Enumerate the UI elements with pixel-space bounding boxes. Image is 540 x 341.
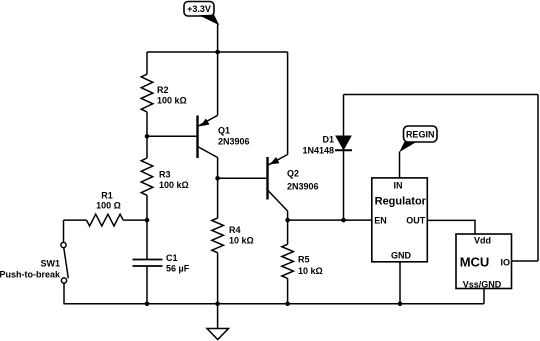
- power flag +3.3V: [184, 2, 219, 26]
- svg-text:GND: GND: [391, 251, 412, 261]
- IC MCU box: [456, 234, 512, 289]
- wire node to R5: [287, 220, 289, 244]
- svg-text:R5: R5: [298, 255, 310, 265]
- svg-text:10 kΩ: 10 kΩ: [229, 236, 254, 246]
- wire +3.3V rail: [147, 51, 288, 53]
- svg-text:100 kΩ: 100 kΩ: [157, 96, 187, 106]
- junction +3.3V node: [215, 50, 220, 55]
- junction R5 ground node: [285, 302, 290, 307]
- wire EN net: [288, 219, 372, 221]
- junction regulator GND node: [398, 302, 403, 307]
- wire OUT net to MCU Vdd: [427, 220, 475, 234]
- svg-text:IO: IO: [500, 258, 510, 268]
- svg-text:56 µF: 56 µF: [166, 264, 190, 274]
- svg-text:Q2: Q2: [287, 169, 299, 179]
- wire R2 to Q1 base node: [146, 112, 148, 136]
- junction R4 ground node: [215, 302, 220, 307]
- junction R1/R3/C1 node: [145, 218, 150, 223]
- wire Q1 collector down: [217, 158, 219, 179]
- IC regulator box: [372, 178, 428, 262]
- svg-text:2N3906: 2N3906: [218, 137, 250, 147]
- svg-text:100 kΩ: 100 kΩ: [159, 180, 189, 190]
- svg-text:MCU: MCU: [460, 255, 490, 270]
- svg-text:R3: R3: [159, 170, 171, 180]
- svg-text:R2: R2: [157, 85, 169, 95]
- wire Q1 base: [147, 135, 197, 137]
- svg-text:R1: R1: [101, 191, 113, 201]
- svg-text:IN: IN: [394, 181, 403, 191]
- wire R1 left lead: [64, 219, 87, 221]
- svg-text:Push-to-break: Push-to-break: [0, 270, 61, 280]
- svg-text:REGIN: REGIN: [406, 130, 435, 140]
- wire Q1 emitter to rail: [217, 52, 219, 115]
- wire IO horizontal: [512, 260, 539, 262]
- wire rail to R2: [146, 52, 148, 74]
- svg-text:SW1: SW1: [40, 259, 60, 269]
- transistor Q2: [268, 155, 288, 212]
- wire REGIN to IN: [399, 152, 401, 179]
- diode D1: [335, 136, 352, 150]
- power flag REGIN: [399, 126, 437, 152]
- svg-text:Vss/GND: Vss/GND: [463, 280, 502, 290]
- wire regulator GND down: [399, 262, 401, 304]
- svg-text:D1: D1: [322, 135, 334, 145]
- svg-text:EN: EN: [374, 215, 387, 225]
- svg-text:Q1: Q1: [218, 126, 230, 136]
- wire R1 right lead: [123, 219, 147, 221]
- transistor Q1: [198, 115, 218, 158]
- junction Q1 base node: [145, 134, 150, 139]
- resistor R2: [141, 74, 153, 112]
- svg-text:10 kΩ: 10 kΩ: [298, 266, 323, 276]
- svg-text:1N4148: 1N4148: [302, 146, 334, 156]
- wire C1 to ground rail: [146, 266, 148, 304]
- svg-text:+3.3V: +3.3V: [187, 4, 211, 14]
- resistor R4: [212, 218, 224, 253]
- wire R3 to R1 node: [146, 195, 148, 220]
- wire D1 cathode down: [343, 150, 345, 220]
- wire MCU Vss/GND down: [483, 289, 485, 304]
- wire D1 anode up: [343, 95, 345, 137]
- wire +3.3V flag to rail: [217, 25, 219, 53]
- wire top net D1 to IO: [344, 94, 539, 96]
- wire SW1 top: [63, 220, 65, 242]
- junction D1 EN node: [341, 218, 346, 223]
- svg-text:Regulator: Regulator: [375, 195, 427, 207]
- resistor R1: [87, 214, 124, 226]
- junction Q2 collector node: [285, 218, 290, 223]
- wire R4 to ground rail: [217, 253, 219, 304]
- svg-text:OUT: OUT: [406, 215, 426, 225]
- wire ground rail: [64, 303, 485, 305]
- svg-text:C1: C1: [166, 253, 178, 263]
- ground: [207, 304, 229, 340]
- switch SW1: [61, 242, 68, 283]
- junction Q1 collector node: [215, 176, 220, 181]
- wire R5 to ground rail: [287, 278, 289, 303]
- wire Q2 collector down: [287, 211, 289, 220]
- junction C1 ground node: [145, 302, 150, 307]
- svg-text:Vdd: Vdd: [474, 236, 491, 246]
- wire Q1 base node to R3: [146, 136, 148, 158]
- resistor R5: [282, 244, 294, 278]
- svg-text:R4: R4: [229, 225, 241, 235]
- capacitor C1: [133, 260, 163, 267]
- wire Q2 emitter to rail: [287, 52, 289, 155]
- wire Q1 collector to Q2 base: [218, 177, 267, 179]
- svg-text:100 Ω: 100 Ω: [96, 201, 121, 211]
- wire IO right vertical: [537, 95, 539, 262]
- resistor R3: [141, 158, 153, 195]
- wire node to R4: [217, 178, 219, 218]
- wire R1 node to C1: [146, 220, 148, 259]
- wire SW1 bottom: [63, 283, 65, 304]
- svg-text:2N3906: 2N3906: [287, 182, 319, 192]
